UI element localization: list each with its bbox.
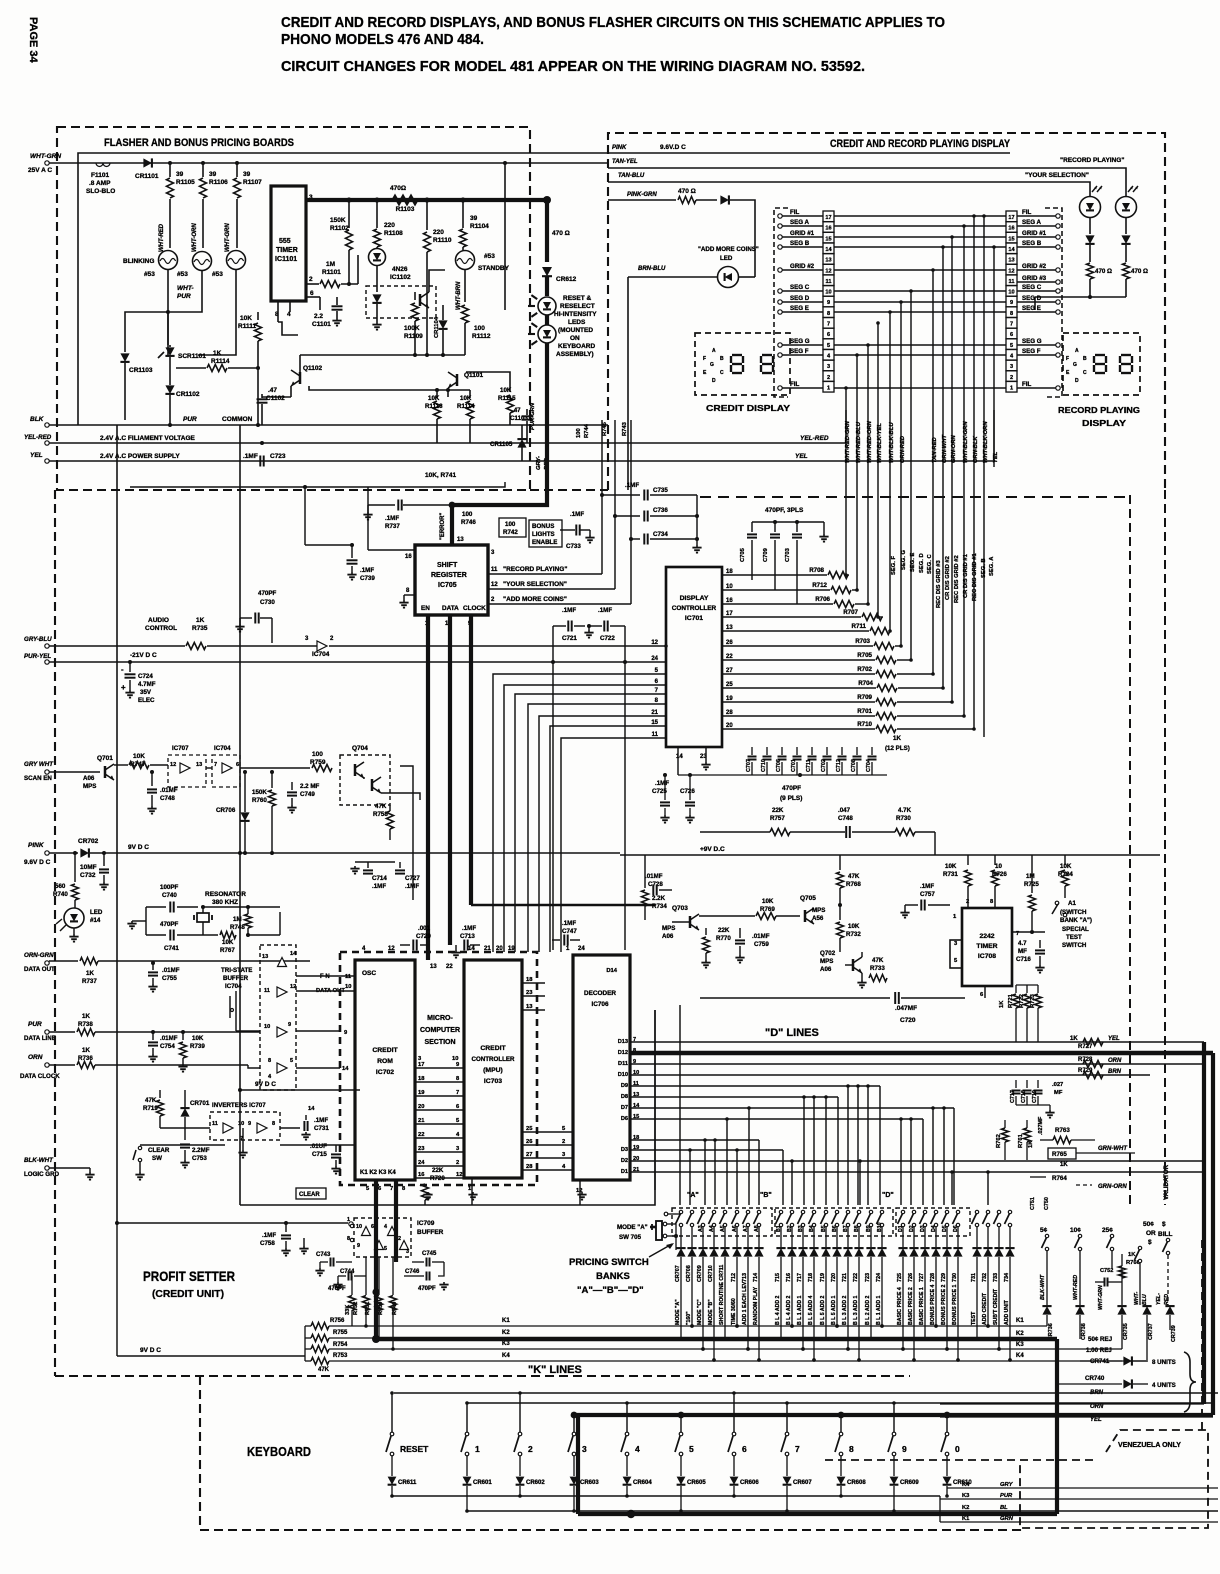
ic decoder IC706 <box>573 955 630 1180</box>
svg-text:TIMER: TIMER <box>976 943 997 950</box>
svg-text:PINK-GRN: PINK-GRN <box>627 192 657 198</box>
svg-text:#53: #53 <box>144 271 155 278</box>
svg-text:.1MF: .1MF <box>920 883 934 890</box>
flasher board dashed box <box>57 127 530 490</box>
svg-text:"K" LINES: "K" LINES <box>528 1364 582 1376</box>
grounds profit top <box>427 1192 429 1195</box>
terminal ORN-GRN data out <box>45 961 49 965</box>
svg-text:734: 734 <box>1004 1273 1010 1282</box>
right connector terminals <box>1056 214 1060 218</box>
svg-text:14: 14 <box>1008 247 1015 253</box>
svg-text:0: 0 <box>955 1444 960 1454</box>
svg-text:2.4V A.C FILIAMENT VOLTAGE: 2.4V A.C FILIAMENT VOLTAGE <box>100 435 196 442</box>
svg-text:16: 16 <box>1008 226 1014 232</box>
svg-text:SEG F: SEG F <box>1022 348 1041 355</box>
svg-text:R756: R756 <box>330 1318 345 1324</box>
credit display connector left <box>823 211 834 222</box>
svg-text:A: A <box>1075 348 1079 354</box>
svg-text:C736: C736 <box>653 507 668 514</box>
svg-text:CONTROL: CONTROL <box>145 625 177 632</box>
wire 25VAC bus <box>49 162 608 164</box>
svg-text:(CREDIT UNIT): (CREDIT UNIT) <box>152 1289 224 1300</box>
svg-text:CREDIT AND RECORD DISPLAYS, AN: CREDIT AND RECORD DISPLAYS, AND BONUS FL… <box>281 15 945 31</box>
svg-text:17: 17 <box>418 1062 424 1068</box>
svg-text:CR702: CR702 <box>78 838 99 845</box>
special test switch <box>1055 901 1059 905</box>
bold wire rom second <box>394 1215 398 1262</box>
wire R1101 to R1102 <box>319 283 349 285</box>
svg-text:G: G <box>1073 362 1077 368</box>
keyboard dashed box <box>200 1376 1020 1530</box>
svg-text:5¢: 5¢ <box>1040 1227 1048 1234</box>
svg-text:OSC: OSC <box>362 970 376 977</box>
svg-text:.01MF: .01MF <box>160 787 178 794</box>
svg-text:CR DIS GRID #1: CR DIS GRID #1 <box>963 553 969 598</box>
svg-text:BUFFER: BUFFER <box>223 975 249 982</box>
svg-text:YEL: YEL <box>1108 1036 1120 1042</box>
svg-text:R702: R702 <box>857 666 872 673</box>
svg-text:24: 24 <box>418 1160 425 1166</box>
pricing switch column 724 <box>880 1210 883 1213</box>
svg-text:+: + <box>121 683 126 692</box>
svg-text:R1101: R1101 <box>322 269 341 276</box>
svg-text:712: 712 <box>731 1273 737 1282</box>
svg-text:.01MF: .01MF <box>162 967 180 974</box>
capacitor C1102 <box>262 396 291 398</box>
bold wires rom bottom <box>374 1180 378 1215</box>
svg-text:"YOUR SELECTION": "YOUR SELECTION" <box>503 581 567 588</box>
diode CR1102 <box>165 385 174 394</box>
svg-text:SEG E: SEG E <box>790 305 809 312</box>
svg-text:733: 733 <box>993 1273 999 1282</box>
svg-text:A56: A56 <box>812 915 824 922</box>
svg-text:SEG C: SEG C <box>1022 284 1042 291</box>
scr SCR1101 <box>165 347 174 356</box>
svg-text:"B": "B" <box>760 1192 772 1199</box>
svg-text:CR740: CR740 <box>1085 1375 1105 1382</box>
svg-text:MODE "A": MODE "A" <box>617 1224 648 1231</box>
svg-text:Q703: Q703 <box>672 905 688 912</box>
svg-text:CR739: CR739 <box>1171 1325 1177 1342</box>
led reset hi-intensity 1 <box>538 297 556 315</box>
svg-text:1K: 1K <box>82 1013 90 1020</box>
svg-text:FIL: FIL <box>1022 381 1031 388</box>
svg-text:B: B <box>1083 356 1087 362</box>
svg-text:10: 10 <box>825 290 831 296</box>
svg-text:+9V D.C: +9V D.C <box>700 846 725 853</box>
svg-text:R746: R746 <box>461 519 476 526</box>
svg-text:8: 8 <box>849 1444 854 1454</box>
svg-text:K4: K4 <box>1016 1353 1024 1359</box>
wire R1110 bottom <box>426 330 428 355</box>
svg-text:9: 9 <box>1010 300 1013 306</box>
svg-text:ADD UNIT: ADD UNIT <box>1004 1299 1010 1325</box>
svg-text:B L 3 ADD 1: B L 3 ADD 1 <box>853 1295 859 1325</box>
svg-text:YEL: YEL <box>1090 1417 1102 1423</box>
svg-text:SEG. E: SEG. E <box>910 553 916 572</box>
svg-text:9: 9 <box>357 1243 360 1249</box>
diode CR606 <box>733 1456 735 1476</box>
svg-text:CR608: CR608 <box>847 1480 866 1486</box>
pricing switch column 723 <box>869 1210 872 1213</box>
svg-text:17: 17 <box>825 215 831 221</box>
resistor R1109 100K <box>414 292 416 300</box>
svg-text:WHT-: WHT- <box>177 285 194 292</box>
svg-text:GRY-: GRY- <box>536 456 542 470</box>
svg-text:D8: D8 <box>621 1094 628 1100</box>
resistor R1113 10K <box>436 390 438 398</box>
svg-text:R1108: R1108 <box>384 230 403 237</box>
svg-text:BILL: BILL <box>1158 1231 1172 1238</box>
resistor R1112 100 <box>464 290 466 302</box>
svg-text:REC DIS GRID #1: REC DIS GRID #1 <box>972 553 978 601</box>
keyboard switch 8 <box>840 1415 842 1432</box>
svg-text:R727: R727 <box>1078 1044 1093 1050</box>
svg-text:OR: OR <box>1146 1230 1156 1237</box>
svg-text:R733: R733 <box>870 965 885 972</box>
svg-text:27: 27 <box>726 668 733 674</box>
svg-text:MPS: MPS <box>83 783 96 790</box>
svg-text:Q705: Q705 <box>800 895 816 902</box>
wire filament voltage <box>49 442 846 444</box>
svg-text:F: F <box>703 356 706 362</box>
svg-text:560: 560 <box>55 883 66 890</box>
svg-text:SPECIAL: SPECIAL <box>1062 926 1089 933</box>
wire power supply <box>49 460 994 462</box>
svg-text:D2: D2 <box>621 1158 628 1164</box>
wire timer pin7 <box>1012 931 1045 933</box>
svg-text:YEL-RED: YEL-RED <box>24 434 52 441</box>
wire signals risers <box>601 420 603 574</box>
svg-text:#53: #53 <box>484 253 495 260</box>
svg-text:BONUS PRICE 2: BONUS PRICE 2 <box>941 1285 947 1325</box>
svg-text:16: 16 <box>405 554 412 560</box>
svg-text:C709: C709 <box>763 547 769 562</box>
bold trace from flasher to shift register <box>452 380 547 505</box>
pricing switch column 714 <box>757 1210 760 1213</box>
svg-text:C729: C729 <box>416 933 431 940</box>
svg-text:K1 K2 K3 K4: K1 K2 K3 K4 <box>360 1170 396 1176</box>
svg-text:.01MF: .01MF <box>752 933 770 940</box>
svg-text:555: 555 <box>279 238 291 245</box>
svg-text:B L 4 ADD 2: B L 4 ADD 2 <box>786 1295 792 1325</box>
svg-text:1: 1 <box>827 385 830 391</box>
svg-text:10: 10 <box>995 863 1002 870</box>
svg-text:D: D <box>1075 378 1079 384</box>
svg-text:C705: C705 <box>740 547 746 562</box>
svg-text:C753: C753 <box>192 1155 207 1162</box>
diode CR603 <box>573 1456 575 1476</box>
svg-text:1M: 1M <box>326 261 335 268</box>
svg-text:#14: #14 <box>90 917 101 924</box>
svg-text:IC704: IC704 <box>312 651 330 658</box>
svg-text:R744: R744 <box>584 423 590 438</box>
svg-text:12: 12 <box>170 762 176 768</box>
svg-text:INVERTERS IC707: INVERTERS IC707 <box>212 1102 266 1109</box>
terminal YEL-RED <box>45 441 49 445</box>
svg-text:FIL: FIL <box>1022 209 1031 216</box>
svg-text:10K: 10K <box>192 1035 204 1042</box>
mode A arrow <box>649 1244 672 1257</box>
svg-text:2.2 MF: 2.2 MF <box>300 783 319 790</box>
svg-text:CR603: CR603 <box>580 1480 599 1486</box>
svg-text:"ADD MORE COINS": "ADD MORE COINS" <box>503 596 567 603</box>
svg-text:18: 18 <box>418 1076 425 1082</box>
svg-text:C711: C711 <box>806 759 812 772</box>
pricing switch column 721 <box>846 1210 849 1213</box>
pricing switch column CR709 <box>701 1210 704 1213</box>
svg-text:R735: R735 <box>192 625 208 632</box>
svg-text:1K: 1K <box>213 350 222 357</box>
svg-text:PUR: PUR <box>177 293 191 300</box>
terminal BLK-WHT logic grd <box>45 1166 49 1170</box>
svg-text:PHONO MODELS 476 AND 484.: PHONO MODELS 476 AND 484. <box>281 32 484 48</box>
svg-text:721: 721 <box>842 1273 848 1282</box>
svg-text:TEST: TEST <box>1066 934 1082 941</box>
svg-text:6: 6 <box>742 1444 747 1454</box>
svg-text:1.00 REJ: 1.00 REJ <box>1086 1347 1112 1354</box>
svg-text:R704: R704 <box>858 680 873 687</box>
svg-text:MPS: MPS <box>662 925 675 932</box>
svg-text:$: $ <box>1162 1221 1166 1228</box>
svg-text:9: 9 <box>902 1444 907 1454</box>
svg-text:YEL-RED: YEL-RED <box>800 435 829 442</box>
pricing switch column 713 <box>746 1210 749 1213</box>
resistor R1102 150K <box>348 200 350 228</box>
svg-text:C713: C713 <box>460 933 475 940</box>
wire timer pin6 down <box>965 986 985 998</box>
svg-text:GRID #3: GRID #3 <box>1022 275 1047 282</box>
svg-text:3: 3 <box>406 1249 409 1255</box>
led #14 <box>64 908 84 928</box>
svg-text:6: 6 <box>371 1224 374 1230</box>
svg-text:DISPLAY: DISPLAY <box>680 595 709 602</box>
svg-text:IC708: IC708 <box>978 953 996 960</box>
svg-text:4: 4 <box>635 1444 640 1454</box>
pricing switch column 726 <box>912 1210 915 1213</box>
svg-text:AUDIO: AUDIO <box>148 617 169 624</box>
display box bottom dashed <box>700 496 1130 498</box>
svg-text:R768: R768 <box>846 881 861 888</box>
svg-text:SW: SW <box>152 1155 162 1162</box>
svg-text:TIME 30/60: TIME 30/60 <box>731 1298 737 1325</box>
svg-text:R1106: R1106 <box>209 179 228 186</box>
svg-text:PUR: PUR <box>28 1021 42 1028</box>
svg-text:3: 3 <box>582 1444 587 1454</box>
svg-text:IC702: IC702 <box>376 1069 394 1076</box>
svg-text:CR708: CR708 <box>686 1265 692 1282</box>
svg-text:C701: C701 <box>791 759 797 772</box>
keyboard bus 2 <box>468 1402 1213 1404</box>
diode CR1104 <box>438 320 447 329</box>
wire 470pf top bus <box>752 521 824 523</box>
svg-text:CR1105: CR1105 <box>490 441 513 448</box>
svg-text:R738: R738 <box>78 1021 93 1028</box>
svg-text:R739: R739 <box>190 1043 205 1050</box>
ic701 pin24 wire <box>49 662 666 664</box>
svg-text:IC706: IC706 <box>591 1001 608 1008</box>
svg-text:10K: 10K <box>500 387 512 394</box>
svg-text:26: 26 <box>526 1139 533 1145</box>
svg-text:DATA OUT: DATA OUT <box>24 966 55 973</box>
svg-text:R745: R745 <box>602 421 608 436</box>
svg-text:220: 220 <box>433 229 444 236</box>
svg-text:16: 16 <box>726 598 733 604</box>
svg-text:718: 718 <box>808 1273 814 1282</box>
svg-text:SEG A: SEG A <box>1022 219 1042 226</box>
svg-text:10: 10 <box>726 584 733 590</box>
svg-text:9: 9 <box>288 1022 291 1028</box>
svg-text:11: 11 <box>1009 279 1015 285</box>
svg-text:25V A C: 25V A C <box>28 167 52 174</box>
resistor R1101 <box>320 281 340 288</box>
svg-text:10: 10 <box>1008 290 1014 296</box>
svg-text:LEDS: LEDS <box>568 319 586 326</box>
svg-text:R762: R762 <box>996 1134 1002 1148</box>
svg-text:R1114: R1114 <box>457 403 475 410</box>
svg-text:CR1103: CR1103 <box>129 367 153 374</box>
svg-text:5: 5 <box>384 1246 387 1252</box>
svg-text:BLINKING: BLINKING <box>123 258 154 265</box>
svg-text:17: 17 <box>726 611 733 617</box>
svg-text:22K: 22K <box>718 927 730 934</box>
svg-text:"A": "A" <box>687 1192 699 1199</box>
svg-text:C706: C706 <box>776 759 782 772</box>
svg-text:K2: K2 <box>1016 1331 1024 1337</box>
record playing 7seg digit 1 <box>1095 354 1105 356</box>
svg-text:CR707: CR707 <box>675 1265 681 1282</box>
pricing switch column 718 <box>812 1210 815 1213</box>
svg-text:-21V D C: -21V D C <box>130 652 157 659</box>
pricing switch column 728 <box>934 1210 937 1213</box>
pricing switch column 715 <box>779 1210 782 1213</box>
svg-text:.027MF: .027MF <box>1038 1116 1044 1135</box>
svg-text:24: 24 <box>578 946 585 952</box>
svg-text:27: 27 <box>526 1152 532 1158</box>
svg-text:470PF: 470PF <box>418 1286 436 1292</box>
svg-text:"RECORD PLAYING": "RECORD PLAYING" <box>1060 157 1124 164</box>
svg-text:A06: A06 <box>83 775 95 782</box>
keyboard lower bus 1 <box>392 1495 940 1497</box>
svg-text:D7: D7 <box>621 1105 628 1111</box>
svg-text:R730: R730 <box>896 815 911 822</box>
svg-text:13: 13 <box>726 625 733 631</box>
lamp blinking #53 <box>159 251 178 270</box>
svg-text:R737: R737 <box>385 523 400 530</box>
svg-text:K3: K3 <box>502 1341 510 1347</box>
svg-text:D3: D3 <box>621 1147 628 1153</box>
svg-text:1M: 1M <box>1026 873 1035 880</box>
terminal GRY-BLU <box>45 644 49 648</box>
svg-text:$: $ <box>1148 1239 1152 1246</box>
svg-text:RESET &: RESET & <box>563 295 591 302</box>
svg-text:14: 14 <box>825 247 832 253</box>
svg-text:F1101: F1101 <box>91 172 109 179</box>
svg-text:GRN-WHT: GRN-WHT <box>1098 1146 1128 1152</box>
resistor R1106 <box>202 163 204 177</box>
bold k2 drop <box>1055 1339 1059 1514</box>
wire ic705 pin3 up <box>504 548 506 556</box>
bold keyboard loop top <box>578 1415 1213 1514</box>
diode CR602 <box>519 1456 521 1476</box>
svg-text:4 UNITS: 4 UNITS <box>1152 1382 1176 1389</box>
svg-text:BLU: BLU <box>1142 1294 1148 1305</box>
svg-text:REGISTER: REGISTER <box>431 572 467 579</box>
wire c722 node to decoder pin24 <box>624 662 626 950</box>
svg-text:C1102: C1102 <box>266 395 285 402</box>
svg-text:100: 100 <box>505 521 516 528</box>
svg-text:R706: R706 <box>815 596 830 603</box>
svg-text:2: 2 <box>309 276 313 283</box>
svg-text:MPS: MPS <box>812 907 825 914</box>
svg-text:A06: A06 <box>820 966 832 973</box>
svg-text:R712: R712 <box>812 582 827 589</box>
svg-text:9: 9 <box>827 300 830 306</box>
svg-text:Q1102: Q1102 <box>303 365 323 372</box>
terminal YEL <box>45 459 49 463</box>
svg-text:R734: R734 <box>652 903 667 910</box>
svg-text:WHT-BRN: WHT-BRN <box>456 281 462 310</box>
svg-text:7: 7 <box>456 1090 459 1096</box>
profit setter frame wire <box>117 1222 348 1224</box>
svg-text:ORN-WHT: ORN-WHT <box>942 435 948 463</box>
svg-text:1: 1 <box>475 1444 480 1454</box>
svg-text:R731: R731 <box>943 871 958 878</box>
svg-text:GRID #1: GRID #1 <box>1022 230 1047 237</box>
svg-text:D1: D1 <box>621 1169 628 1175</box>
svg-text:FIL: FIL <box>790 381 799 388</box>
svg-text:732: 732 <box>982 1273 988 1282</box>
svg-text:.1MF: .1MF <box>462 925 476 932</box>
pricing switch column 732 <box>986 1210 989 1213</box>
svg-text:39: 39 <box>243 171 251 178</box>
svg-text:C722: C722 <box>600 635 615 642</box>
inverter chain wire <box>160 1127 210 1129</box>
svg-text:K3: K3 <box>1016 1342 1024 1348</box>
venezuela dashed box <box>825 1459 1098 1461</box>
wire pin16 <box>368 549 415 551</box>
main solid border vertical <box>239 425 241 1205</box>
svg-text:CR1101: CR1101 <box>135 173 159 180</box>
units brace <box>1184 1352 1196 1412</box>
svg-text:100: 100 <box>462 511 473 518</box>
svg-text:728: 728 <box>930 1273 936 1282</box>
terminal PUR data line <box>45 1030 49 1034</box>
svg-text:C731: C731 <box>314 1125 329 1132</box>
svg-text:GRN: GRN <box>1000 1516 1014 1522</box>
keyboard switch 4 <box>626 1403 628 1432</box>
svg-text:15: 15 <box>651 720 658 726</box>
diode CR608 <box>840 1456 842 1476</box>
svg-text:CR706: CR706 <box>216 807 236 814</box>
svg-text:MODE "C": MODE "C" <box>697 1299 703 1325</box>
svg-text:BUFFER: BUFFER <box>417 1229 444 1236</box>
svg-text:R709: R709 <box>857 694 872 701</box>
svg-text:IC707: IC707 <box>172 745 189 752</box>
dashed mid vertical <box>1129 495 1131 1205</box>
record playing display dashed box <box>1063 333 1140 395</box>
svg-text:REC DIS GRID #3: REC DIS GRID #3 <box>936 560 942 608</box>
wire credit display fil <box>780 387 790 389</box>
svg-text:R729: R729 <box>1078 1068 1093 1074</box>
svg-text:11: 11 <box>826 279 832 285</box>
svg-text:.8 AMP: .8 AMP <box>89 180 111 187</box>
svg-text:470PF: 470PF <box>160 921 178 928</box>
svg-text:C752: C752 <box>1100 1268 1113 1274</box>
ground ic705 pin8 <box>404 594 415 596</box>
svg-text:PROFIT SETTER: PROFIT SETTER <box>143 1268 235 1284</box>
svg-text:IC705: IC705 <box>438 582 457 589</box>
